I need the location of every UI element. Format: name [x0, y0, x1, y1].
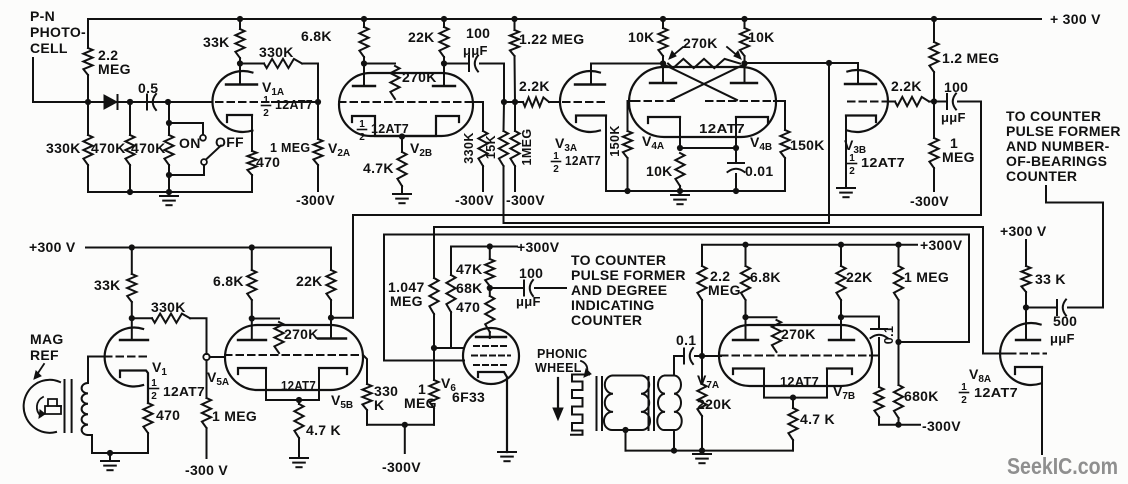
node 470K-2 bottom — [166, 189, 172, 195]
svg-text:470: 470 — [256, 154, 280, 170]
svg-text:1MEG: 1MEG — [520, 128, 534, 165]
svg-text:+300V: +300V — [517, 239, 560, 255]
svg-text:ON: ON — [179, 135, 201, 151]
svg-text:0.1: 0.1 — [882, 326, 896, 345]
resistor 2.2K V3A grid — [515, 97, 560, 106]
svg-text:12AT7: 12AT7 — [371, 122, 409, 136]
svg-text:1: 1 — [263, 95, 269, 106]
resistor 470 V6 — [485, 288, 494, 338]
node -300V branch — [402, 422, 408, 428]
svg-text:MEG: MEG — [390, 293, 423, 309]
resistor 6.8K V5A — [247, 248, 256, 319]
resistor 4.7K V7 — [788, 398, 797, 451]
resistor 6.8K V7 — [741, 245, 750, 318]
label 470K first — [91, 140, 126, 156]
svg-text:INDICATING: INDICATING — [571, 297, 655, 313]
svg-text:COUNTER: COUNTER — [1006, 168, 1077, 184]
node V2A grid node — [315, 99, 321, 105]
label V6 — [441, 375, 456, 394]
capacitor 0.01 V4B cathode — [728, 148, 745, 191]
node rail dot 1MEG V7 — [895, 242, 901, 248]
wire to bearings counter — [1046, 186, 1103, 308]
ground phonic — [693, 451, 711, 464]
node rail dot 1.22MEG — [511, 16, 517, 22]
label 150K V4B — [790, 137, 825, 153]
label 330K V5B — [374, 383, 398, 413]
phonic wheel teeth — [571, 375, 589, 435]
label 220K — [697, 396, 732, 412]
label uuF V8A — [1050, 331, 1075, 346]
label 330K V2B rot — [462, 132, 476, 163]
tube V7A plate — [733, 317, 758, 340]
tube V7 grid line — [702, 355, 879, 358]
label 12AT7 V7 — [780, 375, 819, 389]
node coupling node A — [501, 99, 507, 105]
svg-text:22K: 22K — [408, 29, 435, 45]
label -300V V5A — [185, 462, 228, 478]
resistor 47K — [485, 247, 494, 289]
label 68K — [456, 280, 483, 296]
arrow 270K left — [669, 47, 683, 59]
wire coupling node link — [504, 101, 515, 103]
svg-text:150K: 150K — [608, 125, 622, 156]
svg-text:PHONIC: PHONIC — [537, 347, 587, 361]
label 22K V7 — [846, 269, 873, 285]
tube V7 envelope — [719, 325, 872, 386]
wire V5B grid to 330K — [363, 355, 367, 384]
svg-text:μμF: μμF — [1050, 331, 1075, 346]
svg-text:MAG: MAG — [30, 331, 64, 347]
svg-text:33 K: 33 K — [1035, 271, 1066, 287]
label -300V V7 — [922, 418, 961, 434]
label uuF V6 — [516, 294, 541, 309]
svg-text:10K: 10K — [628, 29, 655, 45]
node V4A plate node — [660, 60, 666, 66]
node V7B plate node — [838, 314, 844, 320]
svg-text:1: 1 — [961, 382, 967, 393]
label 4.7K V7 — [800, 411, 835, 427]
svg-text:PULSE FORMER: PULSE FORMER — [1006, 123, 1121, 139]
resistor 68K — [446, 275, 455, 348]
svg-text:15K: 15K — [484, 135, 498, 159]
label 470 V1A — [256, 154, 280, 170]
resistor 150K V4A grid — [623, 102, 632, 191]
wire 68K to V6 grid — [434, 347, 464, 349]
svg-text:1: 1 — [359, 119, 365, 130]
svg-text:-300 V: -300 V — [185, 462, 228, 478]
transformer winding mag ref — [82, 383, 88, 435]
resistor 33K V1 plate — [127, 248, 136, 319]
svg-text:1: 1 — [849, 153, 855, 164]
label -300V V1A — [296, 192, 335, 208]
resistor 22K V2B plate — [439, 19, 448, 64]
tube V8A plate — [1016, 308, 1040, 341]
ground input bus — [160, 192, 178, 205]
svg-text:CELL: CELL — [30, 40, 68, 56]
svg-text:1 MEG: 1 MEG — [270, 141, 310, 155]
label V7B — [833, 383, 855, 402]
label 33K V1A — [203, 34, 230, 50]
resistor 10K V4B — [740, 19, 749, 64]
tube V3B cathode — [846, 116, 876, 189]
tube V8A grid — [1009, 353, 1046, 355]
tube V6 grid 1 — [474, 345, 508, 347]
svg-text:500: 500 — [1053, 313, 1077, 329]
node rail dot 6.8K V5A — [249, 244, 255, 250]
svg-text:-300V: -300V — [506, 192, 545, 208]
svg-text:+300V: +300V — [920, 237, 963, 253]
node rail dot 33K-V1A — [237, 16, 243, 22]
label V2A — [328, 140, 350, 159]
wire winding to V1 grid — [88, 357, 105, 384]
resistor 4.7K V2 cathode — [397, 137, 406, 195]
label 0.5 — [138, 80, 158, 96]
resistor 4.7K V5 — [294, 400, 303, 458]
tube V5A cathode — [238, 368, 299, 400]
svg-text:100: 100 — [466, 25, 490, 41]
label 12AT7 V4 — [699, 121, 745, 136]
label 2.2 MEG — [98, 47, 131, 77]
node 470K-1 top — [127, 99, 133, 105]
node V4B cathode — [733, 145, 739, 151]
tube V5 grid line — [225, 354, 363, 356]
svg-text:K: K — [374, 397, 384, 413]
transformer core phonic 2 — [649, 377, 655, 430]
ground V3B cathode — [837, 188, 855, 197]
label -300V V6 — [382, 459, 421, 475]
wire V2B coupling down — [503, 64, 505, 103]
tube V4B plate — [731, 64, 757, 84]
svg-text:1: 1 — [553, 151, 559, 162]
svg-text:270K: 270K — [284, 326, 319, 342]
resistor 33K V8A — [1021, 266, 1030, 308]
resistor 150K V4B grid — [780, 101, 789, 191]
resistor 1.2MEG V3B — [929, 19, 938, 102]
wire -300V stub — [404, 425, 406, 453]
svg-text:2: 2 — [359, 132, 365, 143]
node switch tap top — [166, 120, 172, 126]
label +300V V7 — [920, 237, 963, 253]
resistor 1MEG V5A grid — [202, 360, 211, 458]
label 100 V3B — [944, 79, 968, 95]
label 150K rot V4A — [608, 125, 622, 156]
wire V4 cathode link — [680, 147, 736, 149]
tube V4 envelope — [629, 67, 776, 137]
node cap 0.5 out — [165, 99, 171, 105]
svg-text:330K: 330K — [259, 44, 294, 60]
svg-text:470: 470 — [156, 407, 180, 423]
node 680K top — [895, 339, 901, 345]
node V5 cathode — [296, 397, 302, 403]
svg-text:1 MEG: 1 MEG — [212, 408, 257, 424]
label -300V 1MEG — [506, 192, 545, 208]
svg-text:68K: 68K — [456, 280, 483, 296]
svg-text:470: 470 — [456, 299, 480, 315]
node V7 cathode — [790, 395, 796, 401]
tube V5B cathode — [299, 368, 347, 400]
svg-text:MEG: MEG — [98, 61, 131, 77]
node V2 cathode junction — [399, 133, 405, 139]
label -300V 330K — [455, 192, 494, 208]
tube V4B grid — [706, 100, 785, 102]
tube V6 plate — [476, 336, 506, 338]
label half 12AT7 V3B — [848, 153, 906, 177]
tube V2B plate — [433, 64, 455, 87]
svg-text:0.1: 0.1 — [676, 332, 696, 348]
tube V3B envelope — [847, 70, 888, 132]
resistor 22K V7 — [836, 245, 845, 318]
resistor 1.047MEG — [429, 278, 438, 348]
wire V1 ground bus — [92, 452, 148, 454]
tube V1 envelope — [105, 327, 143, 386]
tube V3A grid — [563, 101, 608, 103]
resistor 220K V7A grid — [697, 356, 706, 451]
node rail dot 1.2MEG — [931, 16, 937, 22]
label 1.22MEG — [519, 31, 584, 47]
svg-text:4.7 K: 4.7 K — [306, 422, 341, 438]
label 1.2MEG — [942, 50, 999, 66]
label 0.1 V7B rot — [882, 326, 896, 345]
resistor 10K V4A — [658, 19, 667, 64]
svg-text:150K: 150K — [790, 137, 825, 153]
label V4A — [642, 133, 664, 152]
node V8A plate node — [1023, 304, 1029, 310]
svg-text:12AT7: 12AT7 — [699, 121, 745, 136]
tube V3A envelope — [560, 71, 600, 132]
svg-text:μμF: μμF — [941, 110, 966, 125]
tube V4A plate — [650, 64, 676, 84]
label 15K rot — [484, 135, 498, 159]
svg-text:OF-BEARINGS: OF-BEARINGS — [1006, 153, 1107, 169]
label half 12AT7 V3A — [552, 151, 602, 175]
resistor 270K V5 — [252, 319, 284, 354]
resistor 22K V5B — [326, 248, 335, 318]
resistor 1MEG V3A bias — [510, 102, 519, 191]
label 500 — [1053, 313, 1077, 329]
node 470K-1 bottom — [127, 189, 133, 195]
label 1MEG V6 — [404, 381, 437, 411]
node V5A plate node — [249, 315, 255, 321]
label +300V V6 — [517, 239, 560, 255]
label 2.2K V3B — [891, 78, 922, 94]
node V1 ground — [107, 450, 113, 456]
capacitor 0.1 V7A input — [684, 348, 702, 364]
node bus 150K-1 — [624, 188, 630, 194]
node rail dot 22K V7 — [838, 242, 844, 248]
label 470K second — [131, 140, 166, 156]
svg-text:470K: 470K — [91, 140, 126, 156]
tube V8A cathode — [1015, 367, 1042, 454]
svg-text:AND DEGREE: AND DEGREE — [571, 282, 667, 298]
label 47K — [456, 261, 483, 277]
svg-text:2: 2 — [553, 164, 559, 175]
wire input ground bus — [88, 191, 252, 193]
tube V6 grid 3 — [474, 364, 508, 366]
svg-text:12AT7: 12AT7 — [565, 154, 601, 168]
svg-text:0.5: 0.5 — [138, 80, 158, 96]
tube V2 envelope — [339, 73, 473, 136]
label V4B — [750, 134, 772, 153]
label TO COUNTER PULSE FORMER AND NUMBER-OF-BEARINGS COUNTER — [1006, 108, 1121, 184]
svg-text:MEG: MEG — [404, 395, 437, 411]
node V5B plate node — [328, 315, 334, 321]
ground V2 cathode — [393, 194, 411, 203]
svg-text:2.2K: 2.2K — [891, 78, 922, 94]
transformer core phonic 1 — [597, 377, 603, 430]
svg-text:270K: 270K — [683, 35, 718, 51]
ground V5 cathode — [290, 458, 308, 467]
label 1.047MEG — [388, 279, 425, 309]
resistor 680K — [894, 342, 903, 425]
tube V4A cathode — [648, 117, 680, 148]
resistor 330K V1 coupling — [132, 314, 207, 354]
node bus 10K — [677, 188, 683, 194]
label uuF V3B — [941, 110, 966, 125]
tube V1 cathode — [120, 371, 148, 404]
capacitor 0.1 V7B — [841, 317, 888, 356]
svg-text:2: 2 — [961, 395, 967, 406]
label 10K V4B — [748, 29, 775, 45]
svg-text:330K: 330K — [462, 132, 476, 163]
svg-text:47K: 47K — [456, 261, 483, 277]
tube V7A cathode — [733, 369, 793, 398]
node coupling node B — [512, 99, 518, 105]
capacitor 0.5 — [147, 94, 156, 110]
label 33K V8A — [1035, 271, 1066, 287]
resistor 330K coupling horizontal — [240, 59, 318, 102]
label V3A — [555, 135, 577, 154]
wire V3A plate to V4A node — [591, 63, 663, 65]
node V7A grid node — [699, 353, 705, 359]
svg-text:12AT7: 12AT7 — [275, 98, 313, 112]
label 22K V2B — [408, 29, 435, 45]
tube V6 cathode — [478, 372, 507, 452]
label +300V top right — [1050, 11, 1101, 27]
ground V6 — [498, 452, 516, 461]
node V2B plate node — [441, 60, 447, 66]
label half 12AT7 V2 — [358, 119, 410, 143]
resistor 2.2MEG V7 — [697, 266, 706, 356]
node V1 plate node — [129, 315, 135, 321]
label PHONIC WHEEL — [535, 347, 587, 375]
svg-text:+300 V: +300 V — [29, 239, 76, 255]
wire +300V top supply rail — [88, 18, 1041, 20]
label -300V V3B — [910, 193, 949, 209]
label 10K cathode — [646, 163, 673, 179]
resistor 1MEG V3B out — [929, 102, 938, 192]
node V4B plate node — [741, 60, 747, 66]
tube V3A plate — [575, 64, 605, 85]
tube V1 grid — [105, 356, 150, 358]
node V5A grid terminal — [203, 354, 209, 360]
wire L2 cross-coupling lower — [504, 63, 830, 223]
ground V1 — [101, 453, 119, 470]
wire -300V V7 — [879, 424, 920, 426]
wire +300V rail V7 — [702, 245, 917, 266]
label 330K coupling — [259, 44, 294, 60]
label P-N PHOTOCELL — [30, 8, 86, 56]
label 6.8K V5A — [213, 273, 244, 289]
wire +300V rail V5 — [86, 247, 331, 249]
svg-text:22K: 22K — [296, 273, 323, 289]
svg-text:0.01: 0.01 — [745, 163, 773, 179]
svg-text:MEG: MEG — [942, 149, 975, 165]
node 47K bottom — [487, 285, 493, 291]
svg-text:AND NUMBER-: AND NUMBER- — [1006, 138, 1110, 154]
svg-text:1 MEG: 1 MEG — [904, 269, 949, 285]
tube V4B cathode — [736, 117, 768, 148]
tube V1 plate — [120, 318, 148, 340]
label half 12AT7 V8A — [960, 382, 1019, 406]
wire photocell lead — [33, 58, 212, 102]
svg-text:6F33: 6F33 — [452, 389, 485, 405]
wire +300V V8A — [1025, 240, 1027, 266]
label 100uuF V2B — [463, 25, 490, 58]
node primary tap — [622, 427, 628, 433]
wire -300V bus V5B — [367, 424, 434, 426]
resistor grid V7B — [874, 356, 883, 425]
label 470 V1 — [156, 407, 180, 423]
label V5A — [207, 369, 229, 388]
label 6.8K V2A — [301, 28, 332, 44]
node rail dot 10K-V4B — [741, 16, 747, 22]
label 470 V6 — [456, 299, 480, 315]
resistor 15K bias — [499, 102, 508, 223]
node junction photocell-2.2MEG — [85, 99, 91, 105]
resistor 270K V7 — [746, 317, 782, 352]
tube V1A grid — [216, 101, 318, 103]
resistor 470K first — [125, 102, 134, 192]
svg-text:-300V: -300V — [382, 459, 421, 475]
wire phonic ground bus — [626, 450, 794, 452]
tube V2A plate — [353, 64, 375, 87]
arrow mag ref — [34, 364, 44, 379]
svg-text:PHOTO-: PHOTO- — [30, 24, 86, 40]
wire V4 cathode bus — [606, 190, 785, 192]
label 22K V5B — [296, 273, 323, 289]
tube V2 grid line — [339, 101, 483, 103]
svg-text:-300V: -300V — [922, 418, 961, 434]
resistor 330K V2B grid — [478, 102, 487, 191]
resistor 470 V1 cathode — [143, 403, 152, 453]
svg-text:-300V: -300V — [296, 192, 335, 208]
label +300V bottom left — [29, 239, 76, 255]
resistor 2.2MEG photocell — [83, 19, 92, 102]
resistor 330K V5B grid — [362, 384, 371, 425]
svg-text:2.2K: 2.2K — [519, 78, 550, 94]
node V3B branch — [826, 60, 832, 66]
node V4A cathode — [677, 145, 683, 151]
svg-text:μμF: μμF — [516, 294, 541, 309]
tube V5A plate — [238, 319, 266, 341]
tube V7B cathode — [793, 369, 852, 398]
label MAG REF — [30, 331, 64, 363]
resistor 330K input — [83, 102, 92, 192]
label V5B — [331, 392, 353, 411]
svg-text:2: 2 — [263, 108, 269, 119]
wire line D V6 grid bus — [384, 235, 969, 361]
svg-text:680K: 680K — [904, 388, 939, 404]
wire V4B plate to V3B — [745, 63, 859, 84]
tube V3B grid — [848, 101, 895, 103]
label ON — [179, 135, 201, 151]
wire V4 cross coupling 2 — [671, 65, 743, 100]
wire +300V V6 — [451, 247, 517, 276]
svg-text:10K: 10K — [646, 163, 673, 179]
node 47K top — [487, 243, 493, 249]
label half 12AT7 V1 — [150, 378, 206, 402]
svg-text:P-N: P-N — [30, 8, 55, 24]
